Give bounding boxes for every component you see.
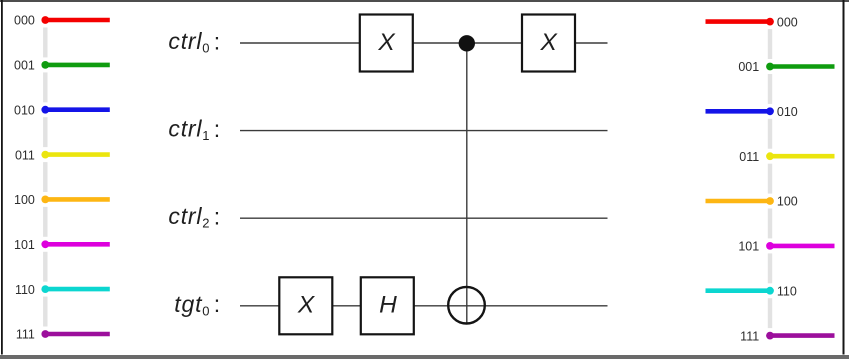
svg-text:X: X [297, 291, 316, 318]
svg-text:011: 011 [15, 148, 35, 162]
svg-text:110: 110 [777, 284, 797, 298]
svg-text:100: 100 [14, 193, 35, 207]
svg-text:X: X [377, 29, 396, 56]
svg-text:111: 111 [16, 328, 35, 342]
svg-text:101: 101 [738, 240, 759, 254]
svg-text:100: 100 [777, 195, 798, 209]
svg-text::: : [214, 204, 220, 230]
svg-text:000: 000 [14, 14, 35, 28]
svg-text:H: H [379, 291, 397, 318]
svg-text:010: 010 [14, 103, 35, 117]
svg-text::: : [214, 28, 220, 54]
svg-text:101: 101 [14, 238, 35, 252]
svg-text:001: 001 [738, 60, 759, 74]
svg-text:110: 110 [15, 283, 35, 297]
svg-text:001: 001 [14, 59, 35, 73]
svg-text::: : [214, 291, 220, 317]
svg-text:000: 000 [777, 15, 798, 29]
svg-text:010: 010 [777, 105, 798, 119]
svg-text::: : [214, 116, 220, 142]
svg-text:011: 011 [739, 150, 759, 164]
svg-text:X: X [540, 29, 559, 56]
svg-text:111: 111 [740, 329, 759, 343]
